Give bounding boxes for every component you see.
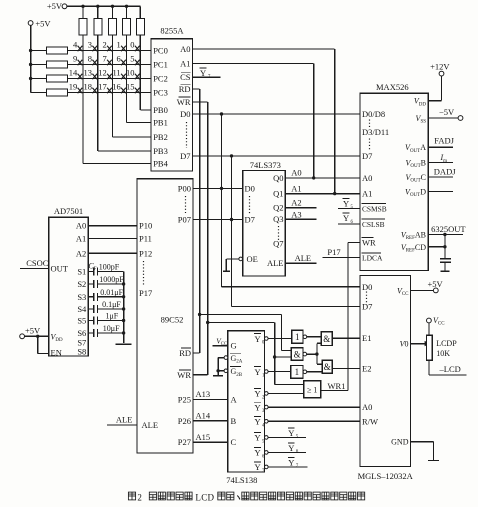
svg-text:S4: S4 bbox=[77, 304, 87, 314]
svg-text:8: 8 bbox=[88, 54, 92, 64]
svg-text:PB0: PB0 bbox=[153, 105, 168, 115]
svg-text:A2: A2 bbox=[291, 198, 301, 208]
svg-text:+5V: +5V bbox=[35, 19, 51, 29]
svg-text:15: 15 bbox=[126, 82, 135, 92]
svg-text:D0/D8: D0/D8 bbox=[362, 109, 385, 119]
svg-text:CSLSB: CSLSB bbox=[362, 220, 385, 229]
svg-text:17: 17 bbox=[98, 82, 107, 92]
svg-text:WR: WR bbox=[362, 238, 376, 248]
svg-text:8255A: 8255A bbox=[160, 26, 184, 36]
svg-text:GND: GND bbox=[391, 438, 409, 447]
svg-text:WR1: WR1 bbox=[328, 381, 346, 391]
svg-text:A: A bbox=[231, 394, 238, 404]
svg-text:EN: EN bbox=[51, 347, 62, 357]
svg-text:D7: D7 bbox=[362, 151, 372, 161]
svg-text:&: & bbox=[294, 350, 301, 360]
svg-text:A1: A1 bbox=[76, 234, 86, 244]
svg-text:0.1μF: 0.1μF bbox=[102, 300, 121, 309]
svg-text:89C52: 89C52 bbox=[161, 315, 184, 325]
svg-text:S3: S3 bbox=[77, 292, 86, 302]
svg-text:RD: RD bbox=[179, 348, 191, 358]
svg-text:G: G bbox=[231, 341, 237, 351]
svg-text:LCDP: LCDP bbox=[436, 339, 457, 348]
svg-text:2: 2 bbox=[102, 40, 106, 50]
svg-text:74LS373: 74LS373 bbox=[250, 160, 281, 170]
svg-text:Q2: Q2 bbox=[273, 203, 283, 213]
svg-text:DADJ: DADJ bbox=[434, 166, 456, 176]
svg-text:1000pF: 1000pF bbox=[99, 275, 124, 284]
svg-text:10K: 10K bbox=[436, 349, 450, 358]
svg-text:RD: RD bbox=[179, 84, 191, 94]
svg-text:ALE: ALE bbox=[116, 414, 133, 424]
svg-text:14: 14 bbox=[69, 68, 78, 78]
svg-text:Q0: Q0 bbox=[273, 173, 283, 183]
svg-text:D3/D11: D3/D11 bbox=[362, 127, 389, 137]
svg-text:P26: P26 bbox=[178, 416, 191, 426]
svg-text:A15: A15 bbox=[196, 432, 211, 442]
svg-text:ALE: ALE bbox=[142, 420, 159, 430]
svg-text:WR: WR bbox=[177, 370, 191, 380]
svg-text:+5V: +5V bbox=[25, 326, 41, 336]
svg-text:A0: A0 bbox=[291, 167, 301, 177]
svg-text:A1: A1 bbox=[180, 59, 190, 69]
svg-text:S6: S6 bbox=[77, 328, 86, 338]
svg-text:D7: D7 bbox=[245, 215, 255, 225]
svg-text:PB3: PB3 bbox=[153, 146, 168, 156]
svg-text:A13: A13 bbox=[196, 389, 211, 399]
svg-text:1: 1 bbox=[116, 40, 120, 50]
svg-text:P10: P10 bbox=[139, 221, 152, 231]
svg-text:−5V: −5V bbox=[439, 107, 455, 117]
svg-text:13: 13 bbox=[84, 68, 93, 78]
svg-text:1: 1 bbox=[295, 367, 300, 377]
svg-text:Q7: Q7 bbox=[273, 239, 283, 249]
svg-text:Q1: Q1 bbox=[273, 188, 283, 198]
svg-text:OUT: OUT bbox=[51, 263, 69, 273]
svg-text:ALE: ALE bbox=[295, 253, 312, 263]
svg-text:12: 12 bbox=[98, 68, 107, 78]
svg-text:4: 4 bbox=[73, 40, 78, 50]
svg-text:7: 7 bbox=[102, 54, 106, 64]
svg-text:A0: A0 bbox=[362, 402, 372, 412]
svg-text:19: 19 bbox=[69, 82, 78, 92]
svg-text:9: 9 bbox=[73, 54, 77, 64]
svg-text:11: 11 bbox=[113, 68, 121, 78]
svg-text:CSMSB: CSMSB bbox=[362, 205, 387, 214]
svg-text:–LCD: –LCD bbox=[439, 364, 461, 374]
svg-text:D7: D7 bbox=[362, 302, 372, 312]
svg-text:V0: V0 bbox=[400, 340, 409, 349]
svg-text:D0: D0 bbox=[180, 109, 190, 119]
svg-text:A3: A3 bbox=[291, 209, 301, 219]
svg-text:OE: OE bbox=[247, 254, 258, 264]
svg-text:≥ 1: ≥ 1 bbox=[307, 386, 317, 395]
svg-text:C: C bbox=[231, 437, 237, 447]
svg-text:74LS138: 74LS138 bbox=[226, 475, 257, 485]
svg-text:+12V: +12V bbox=[430, 62, 450, 72]
svg-text:D7: D7 bbox=[180, 151, 190, 161]
svg-text:PC1: PC1 bbox=[153, 60, 168, 70]
svg-text:P00: P00 bbox=[178, 183, 191, 193]
svg-text:16: 16 bbox=[112, 82, 121, 92]
svg-text:10: 10 bbox=[126, 68, 135, 78]
svg-text:B: B bbox=[231, 416, 237, 426]
svg-text:100pF: 100pF bbox=[99, 263, 120, 272]
svg-text:PC0: PC0 bbox=[153, 46, 168, 56]
svg-text:S8: S8 bbox=[77, 347, 86, 357]
svg-text:P17: P17 bbox=[327, 247, 340, 257]
svg-text:+5V: +5V bbox=[47, 1, 63, 11]
svg-text:5: 5 bbox=[130, 54, 134, 64]
svg-text:6325OUT: 6325OUT bbox=[431, 224, 466, 234]
svg-text:P12: P12 bbox=[139, 248, 152, 258]
svg-text:CSOC: CSOC bbox=[26, 258, 49, 268]
svg-text:2: 2 bbox=[137, 493, 142, 503]
svg-text:1μF: 1μF bbox=[106, 312, 119, 321]
svg-text:LCD: LCD bbox=[195, 493, 214, 503]
svg-text:+5V: +5V bbox=[428, 279, 444, 289]
svg-text:S1: S1 bbox=[77, 267, 86, 277]
svg-text:3: 3 bbox=[88, 40, 92, 50]
svg-text:1: 1 bbox=[295, 332, 300, 342]
svg-text:P17: P17 bbox=[139, 288, 152, 298]
svg-text:PB2: PB2 bbox=[153, 132, 168, 142]
svg-text:R/W: R/W bbox=[362, 416, 378, 426]
svg-text:CS: CS bbox=[180, 72, 191, 82]
svg-text:ALE: ALE bbox=[267, 258, 284, 268]
svg-text:LDCA: LDCA bbox=[362, 254, 383, 263]
svg-text:A0: A0 bbox=[362, 173, 372, 183]
svg-text:P07: P07 bbox=[178, 215, 191, 225]
svg-text:S2: S2 bbox=[77, 279, 86, 289]
svg-text:PB1: PB1 bbox=[153, 118, 168, 128]
svg-text:WR: WR bbox=[177, 97, 191, 107]
svg-text:FADJ: FADJ bbox=[434, 136, 454, 146]
svg-text:18: 18 bbox=[84, 82, 93, 92]
svg-text:A2: A2 bbox=[76, 248, 86, 258]
svg-text:MGLS–12032A: MGLS–12032A bbox=[358, 471, 414, 481]
svg-text:&: & bbox=[323, 334, 330, 344]
svg-text:6: 6 bbox=[116, 54, 120, 64]
svg-text:PB4: PB4 bbox=[153, 159, 168, 169]
svg-text:A0: A0 bbox=[76, 221, 86, 231]
svg-text:A1: A1 bbox=[291, 184, 301, 194]
svg-text:AD7501: AD7501 bbox=[54, 206, 83, 216]
svg-text:E1: E1 bbox=[362, 333, 371, 343]
svg-text:P27: P27 bbox=[178, 437, 191, 447]
svg-text:10μF: 10μF bbox=[103, 324, 120, 333]
svg-text:0.01μF: 0.01μF bbox=[100, 288, 123, 297]
svg-text:E2: E2 bbox=[362, 363, 371, 373]
svg-text:D0: D0 bbox=[362, 282, 372, 292]
svg-text:P11: P11 bbox=[139, 234, 152, 244]
svg-text:D0: D0 bbox=[245, 183, 255, 193]
svg-text:MAX526: MAX526 bbox=[376, 82, 409, 92]
svg-text:P25: P25 bbox=[178, 394, 191, 404]
svg-text:Q3: Q3 bbox=[273, 214, 283, 224]
svg-text:A1: A1 bbox=[362, 189, 372, 199]
svg-text:A14: A14 bbox=[196, 411, 211, 421]
svg-text:&: & bbox=[324, 362, 331, 372]
svg-text:S5: S5 bbox=[77, 316, 86, 326]
svg-text:PC2: PC2 bbox=[153, 74, 168, 84]
svg-text:0: 0 bbox=[130, 40, 134, 50]
svg-text:A0: A0 bbox=[180, 44, 190, 54]
svg-text:PC3: PC3 bbox=[153, 88, 168, 98]
